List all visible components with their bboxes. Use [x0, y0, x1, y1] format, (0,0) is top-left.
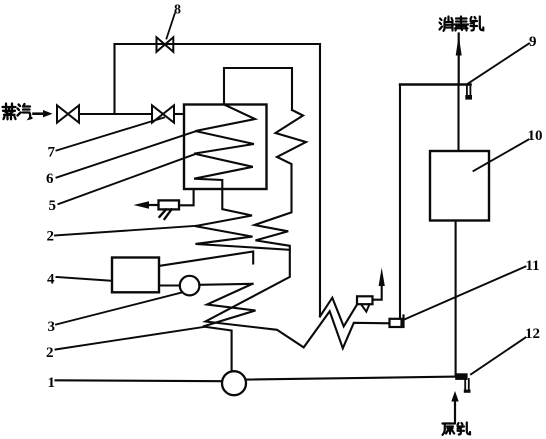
svg-text:2: 2: [46, 345, 54, 361]
fitting 12 (raw milk inlet stub): [455, 373, 470, 393]
pump 1 (feed pump circle): [222, 371, 246, 395]
valve 7 (second steam valve): [152, 105, 174, 122]
valve 11 (small box): [390, 316, 404, 328]
vent valve (with spout): [357, 296, 373, 311]
leader line 7: [57, 118, 165, 151]
leader line 10: [474, 140, 529, 172]
wire hot side into vent valve: [320, 298, 357, 327]
原: [443, 424, 456, 435]
svg-text:1: 1: [48, 375, 56, 391]
vertical coil right of vessel continuing down through zigzag to lower exchanger: [206, 110, 390, 348]
svg-text:2: 2: [47, 229, 55, 245]
wire steam line segment: [79, 113, 152, 115]
wire U pipe over vessel: [224, 68, 292, 110]
wire box4 to pump3: [159, 284, 180, 286]
wire riser to bypass line: [113, 44, 115, 114]
text 原乳 (raw milk) hand-drawn glyphs: [443, 423, 471, 435]
wire pump3 to regenerator: [199, 284, 252, 285]
holding tank 10 (box): [430, 151, 489, 221]
wire pump to raw milk junction: [246, 377, 456, 380]
wire vent valve to vent riser: [373, 284, 382, 300]
steam inlet arrow: [34, 110, 53, 117]
wire bypass top line: [115, 43, 321, 45]
text 消毒乳 (sterilized milk) hand-drawn glyphs: [440, 17, 484, 31]
text 蒸汽 (steam) hand-drawn glyphs: [3, 104, 32, 120]
coil 6 inside vessel continuing to regenerator zigzag: [194, 105, 290, 250]
leader line 11: [402, 267, 526, 321]
蒸: [3, 104, 16, 120]
leader line 8: [167, 14, 175, 39]
fitting 9 (outlet stub): [467, 86, 471, 97]
drain outlet arrow: [134, 201, 159, 208]
wire valve to vessel: [174, 113, 184, 115]
pump 3 (small circle): [180, 276, 200, 296]
毒: [455, 17, 469, 31]
svg-text:9: 9: [529, 34, 537, 50]
svg-text:8: 8: [174, 3, 181, 18]
乳: [458, 423, 471, 435]
wire riser from valve 11: [399, 85, 401, 319]
乳: [471, 17, 484, 31]
valve (steam inlet, leftmost): [57, 105, 79, 122]
svg-text:3: 3: [48, 319, 56, 335]
svg-text:11: 11: [526, 258, 540, 274]
leader line 4: [57, 277, 113, 281]
svg-text:4: 4: [47, 272, 55, 288]
heating vessel 5 (box): [184, 105, 267, 190]
vent arrow up: [379, 268, 385, 287]
leader line 12: [471, 338, 526, 375]
leader line 2 upper: [55, 226, 197, 236]
wire right drop from bypass: [319, 44, 321, 316]
leader line 5: [59, 155, 195, 205]
wire outlet top horizontal: [400, 83, 471, 85]
wire box4 top outlet line: [159, 252, 253, 266]
homogenizer 4 (box): [112, 258, 159, 293]
wire drain from vessel bottom: [179, 190, 194, 206]
raw milk inlet arrow: [451, 391, 458, 422]
消: [440, 17, 453, 31]
svg-text:10: 10: [528, 128, 543, 144]
svg-text:5: 5: [49, 198, 57, 214]
svg-text:7: 7: [48, 145, 56, 161]
svg-text:12: 12: [525, 326, 540, 342]
steam trap (drain valve): [159, 200, 180, 219]
svg-text:6: 6: [46, 171, 54, 187]
汽: [18, 104, 32, 119]
leader line 2 lower: [56, 327, 205, 350]
valve 8 (bypass valve): [157, 37, 174, 52]
leader line 9: [468, 44, 529, 84]
sterilized milk outlet arrow: [456, 34, 462, 85]
leader line 6: [57, 132, 196, 178]
leader line 3: [56, 292, 183, 324]
lower regenerator zigzag to feed pump: [203, 284, 256, 372]
wire tank top to outlet junction: [457, 85, 459, 152]
wire label1 leader / suction line: [56, 379, 223, 382]
wire raw milk riser to holding tank: [455, 221, 457, 377]
